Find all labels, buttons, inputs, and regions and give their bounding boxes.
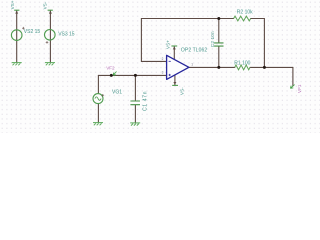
wire output down to VF1 — [292, 67, 294, 85]
voltage source VS2 plus mark — [22, 27, 25, 30]
wire C2 branch upper — [218, 19, 220, 43]
junction node dot (R2 branch / output) — [263, 66, 266, 69]
wire feedback top row right of R2 — [251, 18, 265, 20]
power label VS- (op-amp bottom) — [172, 84, 178, 86]
generator VG1 sine — [95, 97, 101, 100]
svg-text:VS-: VS- — [42, 1, 47, 9]
wire R2 right vertical — [263, 19, 265, 68]
wire VS3 vertical — [49, 10, 51, 62]
arrowhead VS3 jumper — [49, 11, 52, 14]
wire output row right of R1 — [250, 66, 293, 68]
power label VS+ (VS2 top) — [14, 9, 19, 11]
op-amp minus mark — [169, 60, 171, 62]
voltage source VS3 plus mark — [46, 41, 49, 44]
wire C1 branch upper — [134, 75, 136, 100]
op-amp U1 triangle — [167, 55, 189, 79]
ground (VS3) — [45, 63, 55, 66]
wire feedback top row left of R2 — [141, 18, 233, 20]
wire input row to op-amp + — [98, 74, 165, 76]
probe VF1 arrow — [290, 85, 294, 89]
resistor R1 zigzag — [235, 65, 250, 70]
svg-text:2: 2 — [162, 57, 164, 61]
wire VS2 vertical — [16, 10, 18, 62]
svg-text:VS3 15: VS3 15 — [58, 32, 75, 38]
power label VS+ (op-amp top) — [171, 45, 177, 47]
svg-text:OP2 TL062: OP2 TL062 — [181, 48, 208, 54]
wire C1 branch lower — [134, 105, 136, 122]
junction node dot (VF2 probe) — [110, 74, 113, 77]
wire C2 branch lower — [218, 47, 220, 68]
wire output row left of R1 — [189, 66, 235, 68]
svg-text:3: 3 — [162, 71, 164, 75]
wire op-amp V+ stub — [173, 46, 175, 59]
wire VG1 branch vertical — [97, 75, 99, 122]
wire feedback vertical left — [140, 19, 142, 62]
arrowhead op-amp V- jumper — [173, 82, 176, 85]
wire inverting input row — [141, 60, 166, 62]
svg-text:VG1: VG1 — [112, 90, 122, 96]
ground (C1) — [130, 123, 140, 126]
capacitor C1 plates — [130, 101, 140, 105]
generator VG1 plus mark — [102, 94, 104, 96]
junction node dot (feedback top / C2) — [217, 17, 220, 20]
power label VS- (VS3 top) — [48, 9, 53, 11]
voltage source VS3 circle — [45, 30, 56, 41]
ground (VS2) — [12, 63, 22, 66]
resistor R2 zigzag — [234, 16, 251, 21]
wire op-amp V- stub — [174, 75, 176, 85]
background grid — [0, 0, 320, 133]
capacitor C2 plates — [214, 43, 223, 46]
svg-text:1: 1 — [191, 63, 193, 67]
junction node dot (C1 branch) — [134, 74, 137, 77]
svg-text:VS+: VS+ — [10, 0, 15, 9]
junction node dot (C2 bottom / output) — [217, 66, 220, 69]
svg-text:VF2: VF2 — [106, 66, 115, 71]
generator VG1 circle — [93, 94, 103, 104]
probe VF2 arrow — [113, 72, 116, 76]
svg-text:VS+: VS+ — [166, 40, 171, 49]
svg-text:C2 10n: C2 10n — [210, 31, 215, 47]
svg-text:VF1: VF1 — [297, 84, 302, 93]
svg-text:R2 10k: R2 10k — [237, 10, 253, 16]
svg-text:C1 47n: C1 47n — [142, 91, 148, 111]
voltage source VS2 circle — [11, 30, 22, 41]
svg-text:R1 100: R1 100 — [234, 60, 250, 66]
svg-text:VS-: VS- — [180, 87, 185, 95]
arrowhead VS2 jumper — [15, 11, 18, 14]
ground (VG1) — [93, 123, 103, 126]
op-amp plus mark — [169, 74, 171, 76]
arrowhead op-amp V+ jumper — [173, 47, 176, 50]
svg-text:VS2 15: VS2 15 — [24, 29, 41, 35]
